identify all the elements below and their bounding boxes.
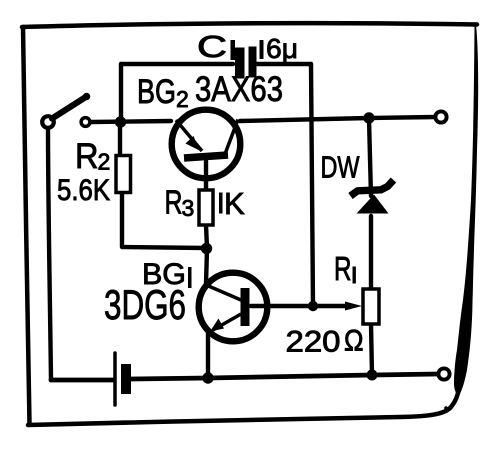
- svg-text:3: 3: [182, 195, 195, 221]
- svg-text:R: R: [334, 250, 352, 287]
- svg-text:C: C: [197, 29, 227, 64]
- svg-text:R: R: [75, 137, 99, 176]
- svg-text:2: 2: [98, 149, 111, 175]
- svg-text:2: 2: [176, 86, 189, 112]
- svg-text:R: R: [165, 184, 183, 221]
- svg-text:220: 220: [286, 326, 341, 359]
- svg-text:DW: DW: [321, 150, 361, 185]
- svg-text:Ω: Ω: [344, 325, 364, 358]
- svg-text:5.6K: 5.6K: [57, 174, 110, 207]
- svg-text:3AX63: 3AX63: [195, 69, 283, 109]
- svg-text:3DG6: 3DG6: [104, 281, 186, 328]
- svg-text:K: K: [224, 186, 245, 221]
- svg-text:6μ: 6μ: [266, 33, 298, 64]
- svg-text:BG: BG: [137, 73, 176, 111]
